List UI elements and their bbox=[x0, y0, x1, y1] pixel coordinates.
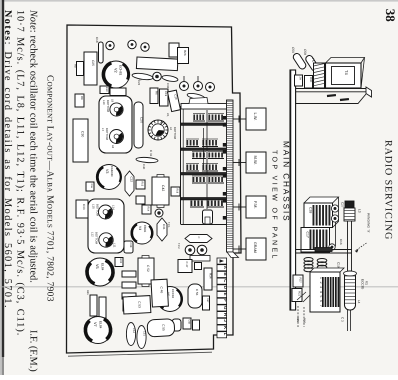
svg-text:R37: R37 bbox=[206, 298, 209, 303]
switch centre link bbox=[206, 110, 208, 209]
svg-text:C 52: C 52 bbox=[146, 265, 150, 272]
capacitor C42 bbox=[152, 177, 169, 205]
svg-text:B: B bbox=[223, 273, 228, 276]
capacitor C46 bbox=[151, 279, 168, 307]
svg-text:C 31: C 31 bbox=[149, 150, 153, 157]
valve V6 ECC83 bbox=[158, 287, 183, 312]
valve V7 EL84 bbox=[85, 317, 112, 344]
resistor R16 bbox=[86, 182, 94, 191]
svg-text:R34: R34 bbox=[209, 273, 213, 279]
svg-text:Notes: Drive cord details as f: Notes: Drive cord details as for Models … bbox=[2, 10, 13, 309]
tuning gang section C28 bbox=[304, 197, 339, 203]
capacitor C53 bbox=[123, 296, 151, 314]
coil L7 bbox=[110, 130, 124, 144]
svg-text:C18: C18 bbox=[95, 37, 99, 43]
capacitor C52 bbox=[138, 258, 154, 284]
svg-text:C28: C28 bbox=[309, 207, 313, 213]
capacitor C19 bbox=[160, 89, 169, 106]
chassis deck bbox=[296, 88, 368, 90]
capacitor C50 bbox=[292, 52, 307, 70]
svg-text:R14: R14 bbox=[147, 207, 150, 212]
mains transformer T5 bbox=[314, 63, 325, 88]
test point circle b bbox=[128, 40, 136, 48]
svg-text:L9: L9 bbox=[111, 99, 115, 103]
board bottom edge shadow line bbox=[68, 352, 212, 356]
tag strip 1-7 bbox=[310, 268, 344, 272]
resistor R30 bbox=[305, 76, 313, 89]
capacitor C40 blade bbox=[136, 157, 158, 164]
printed circuit board outline bbox=[67, 25, 242, 353]
valve V4 EB91 bbox=[131, 222, 153, 244]
svg-text:EL84: EL84 bbox=[101, 263, 105, 271]
resistor R13 bbox=[136, 180, 145, 189]
test point circle c bbox=[141, 43, 149, 51]
chassis middle shelf bbox=[296, 249, 352, 251]
coil L14 bbox=[99, 205, 113, 219]
svg-text:C19: C19 bbox=[337, 262, 341, 268]
resistor R8 bbox=[77, 62, 84, 76]
svg-text:C26: C26 bbox=[137, 80, 141, 86]
svg-text:T.P.2: T.P.2 bbox=[177, 243, 180, 249]
svg-text:MAIN CHASSIS: MAIN CHASSIS bbox=[282, 141, 291, 223]
svg-text:38: 38 bbox=[383, 9, 398, 22]
svg-text:Note: recheck oscillator coil: Note: recheck oscillator coil each time … bbox=[28, 9, 39, 283]
svg-text:TOP VIEW OF PANEL: TOP VIEW OF PANEL bbox=[271, 150, 278, 261]
svg-text:L10: L10 bbox=[102, 100, 106, 105]
node circle g bbox=[197, 245, 207, 255]
capacitor C47 bbox=[178, 260, 192, 273]
push button L.W. bbox=[246, 108, 266, 130]
svg-text:BOTTOM: BOTTOM bbox=[95, 232, 99, 245]
svg-text:C 3: C 3 bbox=[341, 317, 345, 322]
svg-text:R29: R29 bbox=[296, 317, 300, 323]
node circle d bbox=[180, 82, 189, 91]
resistor R18 bbox=[171, 187, 180, 196]
svg-text:C27: C27 bbox=[341, 202, 345, 208]
svg-text:V2: V2 bbox=[114, 68, 118, 73]
svg-text:EL84: EL84 bbox=[99, 321, 103, 329]
svg-text:R26: R26 bbox=[183, 50, 187, 56]
svg-text:EABC80: EABC80 bbox=[110, 166, 114, 177]
svg-text:L7: L7 bbox=[101, 128, 105, 132]
trimmer C16 chassis bbox=[329, 244, 335, 250]
svg-text:T5.: T5. bbox=[311, 58, 315, 63]
node circle f bbox=[206, 83, 215, 92]
capacitor C26 bbox=[132, 72, 154, 80]
svg-text:C51: C51 bbox=[143, 331, 146, 336]
capacitor C16 bbox=[136, 57, 178, 82]
washer node bbox=[153, 72, 162, 81]
switch unit frame bbox=[180, 106, 182, 224]
push button F.M. bbox=[246, 196, 266, 218]
svg-text:R32: R32 bbox=[119, 259, 122, 264]
svg-text:C16: C16 bbox=[339, 239, 343, 245]
push button M.W. bbox=[246, 152, 266, 173]
svg-text:GRAM: GRAM bbox=[253, 242, 257, 253]
resistor R6 bbox=[150, 88, 158, 104]
svg-text:E: E bbox=[223, 293, 228, 296]
push button GRAM bbox=[246, 238, 266, 260]
svg-text:C54: C54 bbox=[132, 328, 135, 333]
capacitor C18 bbox=[99, 42, 104, 63]
svg-text:C 53: C 53 bbox=[137, 301, 141, 308]
chassis apron bbox=[296, 92, 366, 104]
capacitor C48 bbox=[172, 319, 181, 331]
svg-text:H: H bbox=[223, 313, 228, 316]
svg-text:C 46: C 46 bbox=[159, 286, 163, 293]
trimmer C27 bbox=[331, 205, 338, 212]
svg-text:C58: C58 bbox=[303, 49, 307, 55]
svg-text:C20: C20 bbox=[140, 117, 144, 123]
resistor R38 bbox=[193, 320, 200, 330]
svg-text:R9: R9 bbox=[80, 96, 84, 100]
svg-text:F.M.: F.M. bbox=[253, 201, 258, 209]
svg-text:T4: T4 bbox=[344, 70, 349, 75]
dial drum L3 bbox=[345, 201, 354, 208]
svg-text:EB91: EB91 bbox=[143, 225, 147, 233]
svg-text:C58: C58 bbox=[188, 320, 191, 325]
svg-text:C32: C32 bbox=[130, 177, 134, 183]
svg-text:C25: C25 bbox=[91, 60, 95, 66]
capacitor C58 bbox=[183, 318, 191, 329]
svg-text:WINDING ’X’: WINDING ’X’ bbox=[367, 213, 371, 233]
coil housing L11 L12 L14 L15 bbox=[88, 199, 124, 253]
svg-text:1 2 3 4 5 6 7: 1 2 3 4 5 6 7 bbox=[319, 277, 323, 308]
capacitor C38 bbox=[124, 241, 133, 253]
resistor R10 bbox=[100, 86, 109, 94]
capacitor C21 bbox=[199, 102, 207, 109]
svg-text:C: C bbox=[197, 237, 200, 239]
resistor R26 bbox=[178, 48, 189, 64]
svg-text:ECH81: ECH81 bbox=[119, 65, 123, 76]
resistor R24 bbox=[190, 256, 210, 262]
capacitor C44 bbox=[185, 235, 212, 243]
svg-text:V5: V5 bbox=[95, 264, 99, 269]
svg-text:C 56: C 56 bbox=[195, 289, 199, 296]
svg-text:L6: L6 bbox=[169, 127, 173, 131]
resistor R33 group bbox=[122, 271, 136, 277]
capacitor C55 bbox=[147, 319, 175, 337]
svg-text:L15: L15 bbox=[92, 204, 96, 209]
resistor R22 bbox=[292, 289, 302, 302]
spring coil b bbox=[317, 259, 327, 263]
resistor R17 bbox=[195, 263, 202, 270]
svg-text:2A: 2A bbox=[299, 77, 303, 81]
valve V2 ECH81 bbox=[103, 61, 130, 88]
node circle e bbox=[194, 82, 203, 91]
svg-text:Component Lay-out—Alba Models: Component Lay-out—Alba Models 7701, 7802… bbox=[45, 75, 55, 302]
button stem LW bbox=[233, 118, 246, 120]
svg-text:R16: R16 bbox=[90, 184, 93, 189]
svg-text:BOTTOM: BOTTOM bbox=[106, 100, 110, 113]
button stem GRAM bbox=[233, 248, 246, 250]
svg-text:L12: L12 bbox=[91, 232, 95, 237]
switch wafer combs bbox=[193, 120, 205, 122]
resistor R36 bbox=[99, 297, 106, 318]
capacitor C20 bbox=[134, 102, 143, 148]
fuse 2A bbox=[295, 75, 303, 86]
capacitor C54 bbox=[126, 323, 135, 346]
svg-text:10·7 Mc/s. (L7, L8, L11, L12,: 10·7 Mc/s. (L7, L8, L11, L12, T1); R.F. … bbox=[15, 10, 26, 336]
output transformer T4 bbox=[326, 63, 362, 88]
resistor R19 bbox=[123, 299, 132, 311]
switch actuator bbox=[203, 210, 213, 224]
svg-text:C: C bbox=[223, 279, 228, 282]
capacitor C56 bbox=[188, 284, 202, 308]
svg-text:R10: R10 bbox=[105, 87, 108, 92]
svg-text:C42: C42 bbox=[161, 185, 165, 191]
capacitor C23 blade bbox=[187, 92, 206, 101]
capacitor C29 bbox=[168, 90, 181, 111]
svg-text:C30: C30 bbox=[81, 131, 85, 137]
valve V3 EABC80 bbox=[97, 165, 122, 190]
capacitor C36 bbox=[162, 75, 179, 83]
svg-text:L.W.: L.W. bbox=[253, 113, 258, 121]
svg-text:M.W.: M.W. bbox=[253, 156, 258, 165]
resistor R37 bbox=[203, 296, 210, 310]
valve V5 EL84 bbox=[86, 258, 114, 286]
svg-text:R18: R18 bbox=[176, 189, 179, 194]
capacitor C30 bbox=[73, 119, 88, 162]
svg-text:V4: V4 bbox=[138, 226, 142, 230]
svg-text:BOTTOM: BOTTOM bbox=[105, 128, 109, 141]
svg-text:R27: R27 bbox=[299, 278, 303, 284]
svg-text:R13: R13 bbox=[141, 182, 144, 187]
svg-text:RADIO SERVICING: RADIO SERVICING bbox=[383, 140, 394, 240]
svg-text:L4: L4 bbox=[357, 300, 361, 304]
svg-text:R35: R35 bbox=[86, 290, 89, 295]
svg-text:R8: R8 bbox=[74, 64, 78, 68]
test point circle a bbox=[106, 41, 114, 49]
svg-text:BOTTOM: BOTTOM bbox=[173, 127, 177, 140]
switch wafer bars bbox=[181, 123, 231, 125]
coil L9 bbox=[110, 103, 123, 116]
svg-text:L8: L8 bbox=[111, 145, 115, 149]
capacitor C25 bbox=[84, 52, 97, 85]
svg-text:L5,: L5, bbox=[166, 113, 170, 117]
svg-text:BOTTOM: BOTTOM bbox=[96, 204, 100, 217]
svg-text:V3: V3 bbox=[105, 169, 109, 173]
svg-text:A: A bbox=[223, 266, 228, 269]
svg-text:C 47: C 47 bbox=[185, 262, 189, 268]
svg-text:C50: C50 bbox=[291, 47, 295, 53]
capacitor C37 bbox=[136, 196, 145, 204]
svg-text:R22: R22 bbox=[298, 291, 302, 297]
svg-text:L3: L3 bbox=[358, 209, 362, 213]
svg-text:L11: L11 bbox=[113, 243, 117, 248]
svg-text:ECC83: ECC83 bbox=[171, 289, 175, 298]
svg-text:R6: R6 bbox=[155, 91, 159, 95]
resistor R34 bbox=[204, 268, 212, 290]
button stem FM bbox=[233, 206, 246, 208]
svg-text:C36: C36 bbox=[166, 83, 170, 89]
button stem MW bbox=[233, 162, 246, 164]
switch contact rail bbox=[227, 100, 234, 252]
svg-text:C41: C41 bbox=[162, 224, 166, 230]
svg-text:C38: C38 bbox=[129, 243, 132, 248]
svg-text:C33: C33 bbox=[82, 204, 86, 210]
resistor R27 bbox=[293, 275, 303, 287]
edge connector strip bbox=[217, 258, 227, 264]
capacitor C24 bbox=[110, 88, 126, 96]
svg-text:ECC85: ECC85 bbox=[361, 279, 365, 290]
capacitor C41 bbox=[157, 218, 167, 241]
chassis side rail bbox=[290, 70, 296, 310]
spring coil a bbox=[304, 258, 313, 262]
svg-text:V7: V7 bbox=[93, 322, 97, 327]
trimmer L5 L6 bbox=[148, 120, 168, 140]
svg-text:L: L bbox=[223, 333, 228, 336]
svg-text:D: D bbox=[223, 286, 228, 289]
tuner shaft bbox=[347, 221, 349, 271]
tuning gang section C17 bbox=[301, 228, 330, 253]
svg-text:R30: R30 bbox=[309, 77, 313, 83]
test point T.P.1 bbox=[155, 209, 163, 217]
svg-text:C17: C17 bbox=[306, 232, 310, 238]
capacitor C33 bbox=[76, 200, 88, 218]
leader lines R29 R26 bbox=[297, 292, 306, 300]
coil L11 bbox=[99, 233, 113, 247]
valve V1 ECC85 bbox=[345, 271, 356, 310]
svg-text:F: F bbox=[223, 299, 228, 302]
capacitor C22 bbox=[169, 43, 179, 57]
resistor R32 bbox=[115, 258, 123, 267]
svg-text:C40: C40 bbox=[142, 164, 146, 170]
capacitor C32 bbox=[125, 171, 134, 196]
coil housing L7 L8 L9 L10 bbox=[99, 96, 132, 153]
svg-text:I.F. (F.M.): I.F. (F.M.) bbox=[28, 330, 39, 372]
capacitor C51 bbox=[137, 326, 146, 349]
svg-text:R26: R26 bbox=[303, 318, 307, 324]
resistor R9 bbox=[75, 94, 84, 107]
svg-text:L14: L14 bbox=[112, 205, 116, 210]
capacitor C59 bbox=[305, 54, 320, 72]
resistor R14 bbox=[142, 205, 151, 214]
svg-text:C 55: C 55 bbox=[161, 324, 165, 331]
